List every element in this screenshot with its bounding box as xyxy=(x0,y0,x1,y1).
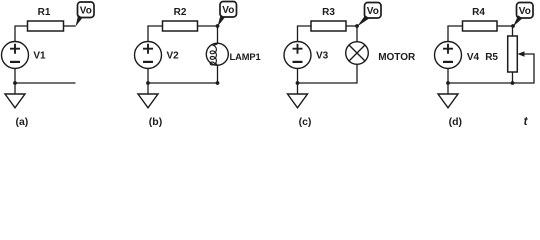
wiper arrow R5 xyxy=(518,51,525,57)
node junction top (b) xyxy=(216,24,220,28)
wire V2 top to R2 xyxy=(148,26,163,42)
node junction bottom left (b) xyxy=(146,81,150,85)
wire R4 to node Vo (d) xyxy=(497,25,513,27)
probe box Vo (b) xyxy=(220,2,237,18)
probe tail Vo (d) xyxy=(513,15,523,26)
svg-text:R5: R5 xyxy=(485,52,498,63)
svg-text:V2: V2 xyxy=(167,51,180,62)
wire top node to motor xyxy=(356,26,358,42)
node junction bottom left (d) xyxy=(446,81,450,85)
voltage source V1 xyxy=(2,42,29,69)
svg-text:R1: R1 xyxy=(38,7,51,18)
wire R1 to output node xyxy=(64,25,76,27)
node junction bottom right (b) xyxy=(216,81,220,85)
wire top node to lamp xyxy=(217,26,219,43)
wire R5 bottom to rail xyxy=(512,72,514,83)
svg-text:V4: V4 xyxy=(467,52,480,63)
resistor R2 xyxy=(163,21,198,31)
probe box Vo (d) xyxy=(517,3,534,19)
plus sign V3 xyxy=(293,44,303,54)
ground (c) xyxy=(288,94,308,108)
minus sign V2 xyxy=(143,61,153,63)
ground (d) xyxy=(438,94,458,108)
wire V1 top to R1 xyxy=(15,26,28,42)
svg-text:(c): (c) xyxy=(299,116,312,128)
lamp filament xyxy=(210,44,217,65)
voltage source V4 xyxy=(435,42,462,69)
probe tail Vo (c) xyxy=(357,15,370,26)
voltage source V2 xyxy=(135,42,162,69)
svg-text:R4: R4 xyxy=(472,7,485,18)
svg-text:Vo: Vo xyxy=(80,5,92,16)
wire R3 to node Vo (c) xyxy=(346,25,357,27)
voltage source V3 xyxy=(284,42,311,69)
svg-text:V3: V3 xyxy=(316,51,329,62)
svg-text:(d): (d) xyxy=(449,116,462,128)
probe tail Vo (b) xyxy=(218,15,225,27)
resistor R1 xyxy=(28,21,64,31)
wire V3 bottom to ground node xyxy=(297,69,299,95)
motor cross xyxy=(349,45,365,61)
wire motor to bottom rail xyxy=(298,64,358,83)
minus sign V1 xyxy=(10,61,20,63)
node junction top (c) xyxy=(355,24,359,28)
svg-text:(b): (b) xyxy=(149,116,162,128)
probe box Vo (a) xyxy=(78,2,95,18)
svg-text:Vo: Vo xyxy=(367,6,379,17)
plus sign V1 xyxy=(10,44,20,54)
svg-text:V1: V1 xyxy=(33,51,46,62)
svg-text:MOTOR: MOTOR xyxy=(378,52,416,63)
ground (b) xyxy=(138,94,158,108)
resistor R3 xyxy=(311,21,346,31)
wire V3 top to R3 xyxy=(298,26,312,42)
svg-text:Vo: Vo xyxy=(222,5,234,16)
probe box Vo (c) xyxy=(365,3,382,19)
svg-text:(a): (a) xyxy=(15,116,28,128)
wire V4 bottom to ground node xyxy=(447,69,449,95)
motor MOTOR xyxy=(346,42,369,65)
node junction (a) xyxy=(13,81,17,85)
wire bottom rail (d) xyxy=(448,82,513,84)
ground (a) xyxy=(5,94,25,108)
plus sign V4 xyxy=(443,44,453,54)
resistor R4 xyxy=(463,21,498,31)
svg-text:R2: R2 xyxy=(174,7,187,18)
wire V1 bottom to ground node xyxy=(14,69,16,95)
wire R2 to node Vo (b) xyxy=(198,25,218,27)
wire wiper return xyxy=(513,54,535,83)
wire bottom stub (a) xyxy=(15,82,76,84)
node junction bottom (c) xyxy=(296,81,300,85)
minus sign V4 xyxy=(443,61,453,63)
node junction bottom mid (d) xyxy=(511,81,515,85)
potentiometer R5 xyxy=(508,36,518,72)
wire V2 bottom to ground node xyxy=(147,69,149,95)
svg-text:LAMP1: LAMP1 xyxy=(230,52,261,62)
lamp LAMP1 xyxy=(206,43,228,65)
svg-text:Vo: Vo xyxy=(519,6,531,17)
plus sign V2 xyxy=(143,44,153,54)
wire top node to R5 xyxy=(512,26,514,36)
wire V4 top to R4 xyxy=(448,26,463,42)
wire lamp to bottom rail xyxy=(217,65,219,83)
wire bottom rail (b) xyxy=(148,82,218,84)
node junction top (d) xyxy=(511,24,515,28)
probe tail Vo (a) xyxy=(76,15,83,27)
minus sign V3 xyxy=(293,61,303,63)
svg-text:R3: R3 xyxy=(322,7,335,18)
